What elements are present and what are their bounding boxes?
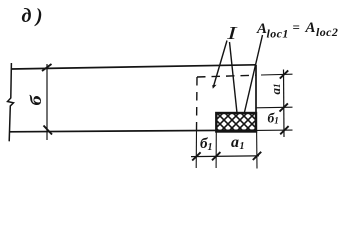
extension line right of dashed boundary bbox=[261, 73, 293, 76]
label I bbox=[226, 23, 238, 43]
svg-text:loc2: loc2 bbox=[316, 25, 338, 39]
wall plate outline: top edge bbox=[12, 65, 257, 69]
svg-text:A: A bbox=[305, 20, 316, 36]
right dimension line for a1 and b1 bbox=[283, 70, 286, 138]
extension line below dashed boundary bbox=[195, 131, 197, 168]
dashed boundary of A_loc2: horizontal segment bbox=[197, 75, 256, 77]
leader from I into A_loc2 region with arrowhead bbox=[214, 41, 227, 87]
left break line with break symbol bbox=[8, 63, 14, 141]
svg-text:A: A bbox=[256, 21, 267, 37]
tick at top edge of b dimension bbox=[42, 64, 52, 71]
svg-text:а1: а1 bbox=[231, 134, 245, 152]
svg-text:I: I bbox=[226, 23, 238, 43]
extension line below plate right edge bbox=[256, 131, 258, 169]
svg-text:=: = bbox=[293, 20, 300, 35]
dashed boundary of A_loc2: vertical segment bbox=[196, 77, 199, 131]
dimension line b (height of plate) bbox=[46, 64, 48, 140]
tick right dim at plate bottom level bbox=[280, 126, 288, 134]
hatched loaded area A_loc1 bbox=[216, 113, 256, 132]
tick at bottom edge of b dimension bbox=[44, 126, 53, 135]
extension line right of plate bottom bbox=[256, 129, 293, 131]
wall plate outline: right edge bbox=[255, 65, 257, 131]
svg-text:а1: а1 bbox=[268, 84, 283, 95]
tick right dim at hatch top level bbox=[280, 103, 288, 111]
svg-text:д): д) bbox=[22, 5, 48, 27]
svg-text:loc1: loc1 bbox=[267, 27, 289, 41]
bottom dimension line for b1 and a1 bbox=[191, 155, 259, 158]
svg-text:б1: б1 bbox=[268, 111, 279, 126]
extension line below hatch left edge bbox=[215, 132, 217, 169]
leader from A_loc label to hatched area bbox=[244, 35, 262, 113]
tick bottom dim at hatch left bbox=[212, 152, 220, 160]
svg-text:б: б bbox=[27, 94, 44, 105]
svg-text:б1: б1 bbox=[200, 136, 213, 153]
tick bottom dim at dashed boundary bbox=[192, 152, 200, 160]
leader from I to hatched area bbox=[230, 42, 238, 113]
wall plate outline: bottom edge bbox=[9, 130, 256, 132]
label b (rotated) bbox=[27, 94, 44, 105]
tick right dim at dashed level bbox=[280, 70, 288, 78]
tick bottom dim at plate right bbox=[253, 152, 261, 160]
extension line right of hatch top bbox=[256, 106, 293, 109]
